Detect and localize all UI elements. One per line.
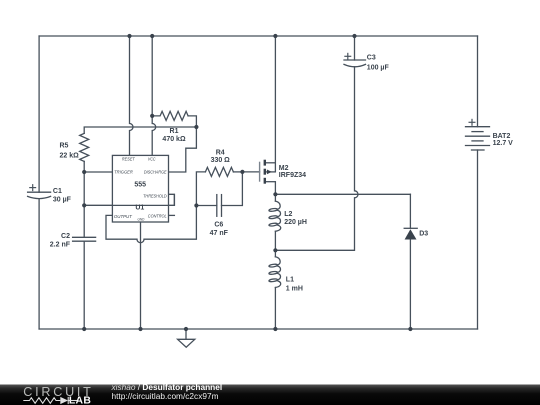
svg-text:RESET: RESET <box>122 157 136 163</box>
svg-text:R1: R1 <box>170 128 179 135</box>
svg-text:GND: GND <box>138 217 145 222</box>
svg-text:22 kΩ: 22 kΩ <box>60 153 80 160</box>
node ground rail / ground symbol <box>184 327 188 331</box>
svg-text:DISCHARGE: DISCHARGE <box>144 169 167 175</box>
plus sign BAT2 <box>469 119 476 126</box>
svg-text:U1: U1 <box>135 204 144 211</box>
transistor M2 leads <box>266 163 275 182</box>
resistor R4 <box>205 167 233 176</box>
wire gate node to MOSFET gate <box>242 171 259 173</box>
node top rail / mosfet source <box>273 34 277 38</box>
capacitor C6 plates <box>216 195 218 217</box>
svg-text:330 Ω: 330 Ω <box>211 157 231 164</box>
node ground rail / D3 <box>408 327 412 331</box>
resistor R1 <box>152 111 188 120</box>
footer logo resistor-diode glyph <box>23 397 77 404</box>
node R1 right / discharge <box>194 125 198 129</box>
node ground rail / C2 <box>82 327 86 331</box>
inductor L1 loops <box>269 264 278 268</box>
capacitor C2 plates <box>73 236 96 238</box>
wire drain node to D3 <box>275 193 410 195</box>
node ground rail / gnd pin wire <box>138 327 142 331</box>
wire right rail upper (to battery) <box>477 36 479 127</box>
node trigger tee <box>82 170 86 174</box>
wire L1 top lead <box>274 250 276 256</box>
svg-text:IRF9Z34: IRF9Z34 <box>279 172 306 179</box>
wire THRESHOLD inner segment redraw over box <box>84 194 174 205</box>
svg-text:100 µF: 100 µF <box>367 65 390 72</box>
svg-text:CONTROL: CONTROL <box>148 214 167 220</box>
svg-text:R5: R5 <box>60 143 69 150</box>
svg-text:47 nF: 47 nF <box>210 230 229 237</box>
wire L1 bottom lead <box>274 288 276 330</box>
svg-text:12.7 V: 12.7 V <box>493 140 514 147</box>
wire left rail lower <box>38 199 40 329</box>
svg-text:R4: R4 <box>216 150 225 157</box>
transistor M2 arrow <box>267 170 272 175</box>
node top rail / C3 <box>352 34 356 38</box>
wire MOSFET drain down to node <box>274 182 276 195</box>
node drain / L2 top <box>273 192 277 196</box>
wire GND pin to ground rail <box>140 222 142 329</box>
wire ground stub <box>185 329 187 339</box>
svg-text:C1: C1 <box>53 188 62 195</box>
wire R4 left lead <box>196 172 205 206</box>
svg-text:L1: L1 <box>286 276 294 283</box>
wire R1 right to DISCHARGE pin <box>169 116 197 172</box>
wire R5 top to discharge node <box>84 127 196 133</box>
svg-text:BAT2: BAT2 <box>493 133 511 140</box>
wire C3 bottom with hop over drain wire <box>275 67 358 251</box>
svg-text:L2: L2 <box>284 211 292 218</box>
wire C6 right to gate node <box>222 172 243 206</box>
wire RESET from top rail with hop <box>130 36 134 155</box>
svg-text:THRESHOLD: THRESHOLD <box>143 194 167 200</box>
plus sign C1 <box>29 184 36 191</box>
footer bar <box>0 385 540 405</box>
wire C2 bottom to ground rail <box>83 241 85 329</box>
svg-text:C6: C6 <box>214 222 223 229</box>
capacitor C1 plates <box>28 191 51 193</box>
wire right rail lower (from battery) <box>477 150 479 329</box>
wire VCC from top rail with hop <box>152 36 156 155</box>
wire OUTPUT to R4/C6 node with hop over GND wire <box>106 206 196 243</box>
transistor M2 gate bar <box>259 162 261 182</box>
wire THRESHOLD to trigger node <box>84 194 174 205</box>
svg-text:D3: D3 <box>419 231 428 238</box>
node top rail / vcc wire <box>150 34 154 38</box>
inductor L1 arcs <box>275 257 280 265</box>
node L2 bottom / L1 top / C3 bottom <box>273 248 277 252</box>
plus sign C3 <box>344 53 351 60</box>
svg-text:470 kΩ: 470 kΩ <box>162 136 186 143</box>
wire L2 top lead <box>274 194 276 201</box>
resistor R5 <box>80 133 89 161</box>
svg-text:220 µH: 220 µH <box>284 219 307 226</box>
svg-text:VCC: VCC <box>148 157 156 163</box>
wire top rail <box>39 35 477 37</box>
wire bottom rail <box>39 328 477 330</box>
svg-text:M2: M2 <box>279 165 289 172</box>
capacitor C3 plates <box>344 59 366 61</box>
diode D3 triangle <box>405 229 417 239</box>
transistor M2 channel bars <box>264 160 266 184</box>
svg-text:C3: C3 <box>367 55 376 62</box>
wire C6 left <box>196 205 216 207</box>
node output / R4 / C6 <box>194 203 198 207</box>
node gate / R4 right / C6 right <box>240 170 244 174</box>
svg-text:C2: C2 <box>61 233 70 240</box>
wire L2 bottom lead <box>274 231 276 250</box>
battery BAT2 plates <box>466 126 490 128</box>
svg-text:OUTPUT: OUTPUT <box>114 214 133 220</box>
svg-text:TRIGGER: TRIGGER <box>114 169 133 175</box>
svg-text:1 mH: 1 mH <box>286 285 303 292</box>
ground symbol <box>178 339 195 347</box>
wire R4 right to gate node <box>233 171 242 173</box>
inductor L2 arcs <box>275 201 280 209</box>
wire D3 anode to ground rail <box>409 240 411 330</box>
node R1 left / vcc wire <box>150 114 154 118</box>
wire TRIGGER pin <box>84 171 112 173</box>
node ground rail / L1 <box>273 327 277 331</box>
node top rail / reset wire <box>127 34 131 38</box>
svg-text:http://circuitlab.com/c2cx97m: http://circuitlab.com/c2cx97m <box>112 391 219 401</box>
svg-text:2.2 nF: 2.2 nF <box>50 242 71 249</box>
inductor L2 loops <box>269 208 278 212</box>
svg-text:30 µF: 30 µF <box>53 197 72 204</box>
wire CONTROL stub <box>169 214 175 216</box>
wire C3 top lead <box>354 36 356 60</box>
wire D3 cathode lead <box>409 194 411 228</box>
node threshold tee <box>82 203 86 207</box>
wire MOSFET source to top rail <box>274 36 276 172</box>
op-amp U1 555 timer box <box>112 155 168 222</box>
wire left rail upper <box>38 36 40 192</box>
wire R5 bottom / C2 column <box>83 161 85 237</box>
diode D3 cathode bar <box>404 227 417 229</box>
svg-text:555: 555 <box>134 182 146 189</box>
